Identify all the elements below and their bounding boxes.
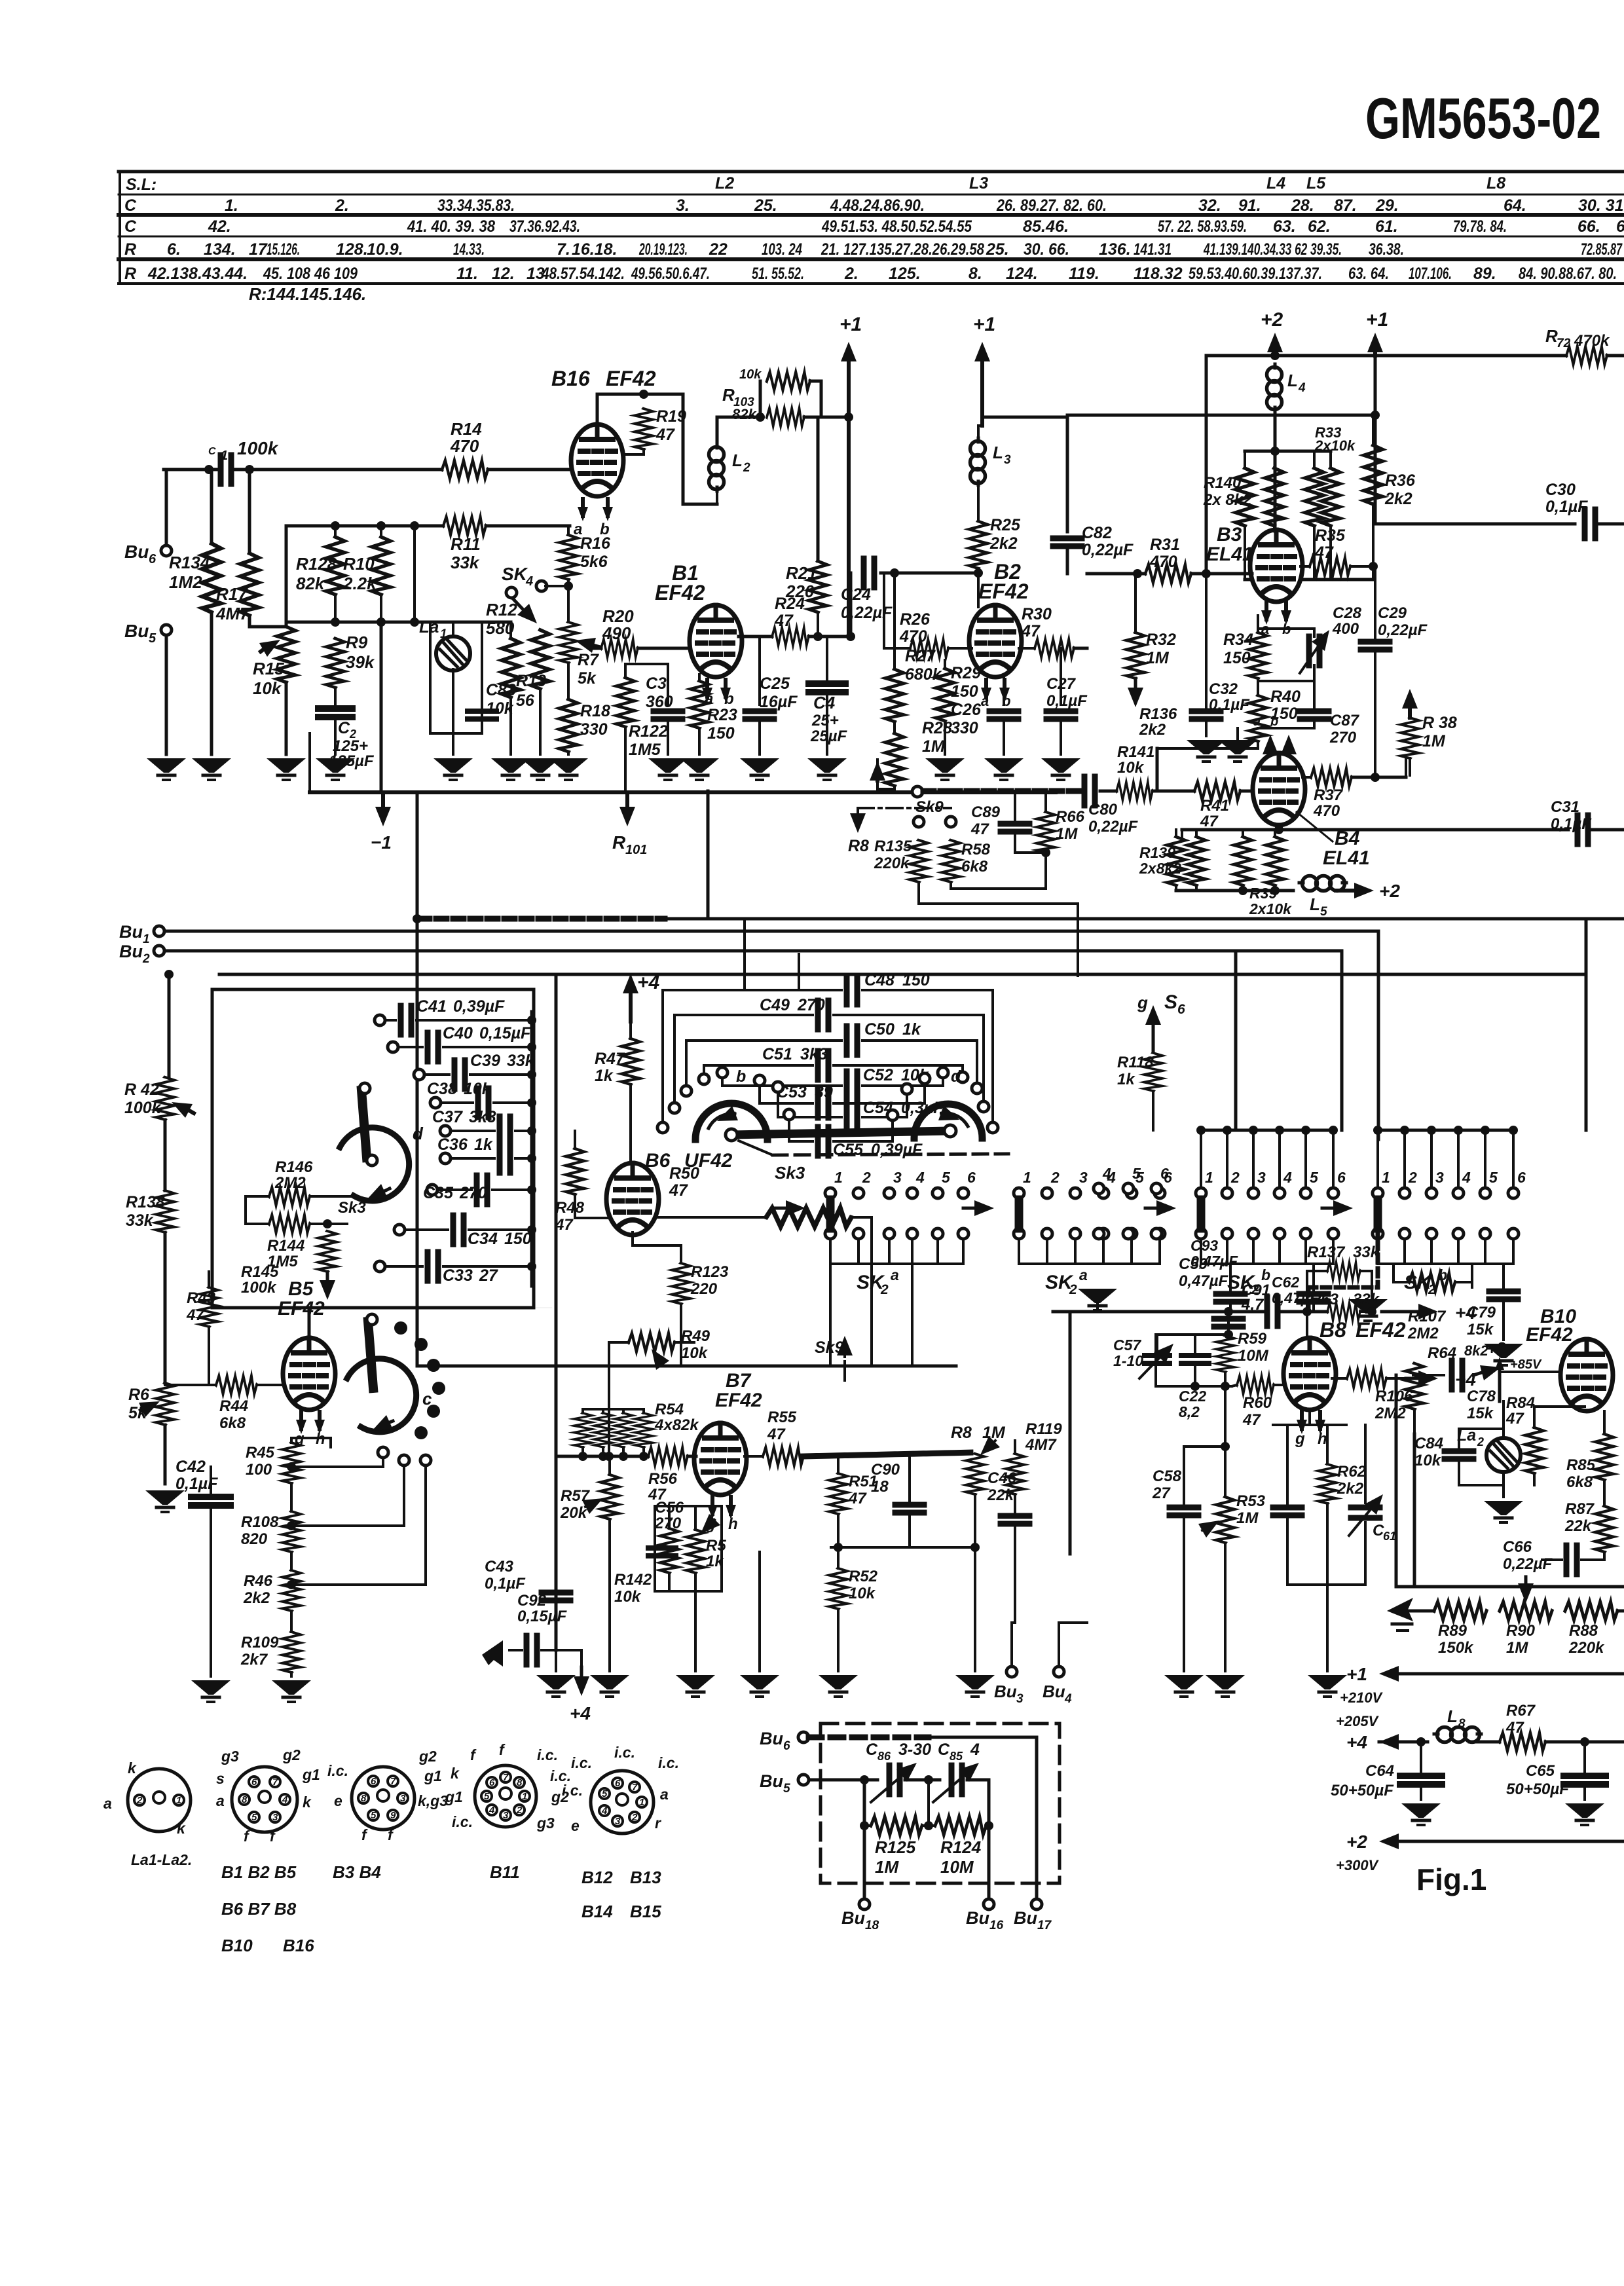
resistor R16 [559, 535, 578, 580]
wire R43 bottom [208, 1327, 210, 1383]
wire R27-R28 [893, 722, 896, 733]
svg-text:10k: 10k [253, 678, 282, 698]
svg-text:B11: B11 [490, 1862, 520, 1882]
wire C62 stem [1312, 1264, 1315, 1291]
capacitor C26 [989, 709, 1018, 714]
svg-text:86: 86 [877, 1750, 891, 1763]
svg-text:2k2: 2k2 [1139, 721, 1166, 739]
svg-text:17: 17 [1037, 1919, 1052, 1932]
wire R27 top [893, 573, 896, 669]
svg-text:1M2: 1M2 [169, 572, 202, 592]
svg-text:47: 47 [848, 1490, 867, 1507]
svg-text:k: k [177, 1820, 186, 1837]
wire R134 down [210, 612, 213, 754]
svg-text:2: 2 [880, 1282, 889, 1297]
svg-text:C: C [938, 1741, 950, 1759]
svg-text:85: 85 [950, 1750, 963, 1763]
resistor R118 [1144, 1053, 1162, 1091]
svg-text:1: 1 [143, 932, 150, 946]
svg-text:C66: C66 [1503, 1538, 1532, 1556]
svg-text:Fig.1: Fig.1 [1416, 1862, 1486, 1896]
wire C4 stem [826, 636, 828, 681]
wire B6 cathode [633, 1232, 681, 1263]
svg-text:R141: R141 [1117, 743, 1154, 761]
svg-text:2.: 2. [844, 265, 858, 283]
tube B8 [1283, 1338, 1336, 1410]
svg-text:R7: R7 [578, 651, 599, 669]
svg-text:5: 5 [371, 1810, 377, 1821]
svg-text:10.9.: 10.9. [367, 240, 403, 259]
ground C32 [1187, 740, 1226, 762]
resistor R84 [1525, 1428, 1543, 1473]
wire R24 left [740, 635, 772, 638]
svg-text:57. 22. 58.93.59.: 57. 22. 58.93.59. [1158, 217, 1247, 236]
svg-text:R21: R21 [786, 563, 817, 583]
svg-text:R48: R48 [555, 1199, 585, 1217]
ground C4 [807, 758, 847, 780]
wire v637 lower [416, 919, 419, 1366]
resistor R135 [910, 840, 928, 882]
node c [410, 521, 419, 530]
svg-text:R18: R18 [580, 702, 610, 720]
svg-text:R138: R138 [126, 1193, 165, 1211]
arrow +2 right [1336, 889, 1354, 893]
svg-text:2k7: 2k7 [240, 1651, 268, 1668]
svg-text:0,22µF: 0,22µF [1088, 818, 1139, 836]
ground R15 [267, 758, 306, 780]
ground R18 [549, 758, 588, 780]
node tap2 [287, 1521, 296, 1530]
svg-text:4: 4 [1298, 381, 1306, 395]
svg-text:+4: +4 [1455, 1302, 1476, 1323]
svg-text:2M2: 2M2 [1375, 1405, 1406, 1422]
resistor R141 [1116, 782, 1153, 800]
svg-text:C93: C93 [1190, 1237, 1218, 1254]
svg-text:1M: 1M [1422, 732, 1446, 750]
svg-text:R124: R124 [940, 1837, 982, 1857]
svg-text:103. 24: 103. 24 [762, 240, 802, 259]
svg-text:1.: 1. [225, 196, 238, 215]
svg-text:C89: C89 [971, 803, 1001, 821]
svg-text:1: 1 [1205, 1169, 1213, 1186]
svg-text:270: 270 [654, 1515, 682, 1532]
svg-text:2x8k2: 2x8k2 [1139, 860, 1181, 877]
resistor R139a [1167, 837, 1185, 885]
resistor R106 [1405, 1363, 1424, 1409]
svg-text:100k: 100k [241, 1279, 277, 1297]
wire B10 enclosure bottom [1396, 1585, 1624, 1589]
wire tap2 [291, 1467, 404, 1526]
svg-text:50+50µF: 50+50µF [1331, 1782, 1394, 1799]
arrow +1 rail [1399, 1672, 1624, 1676]
capacitor C62 [1299, 1291, 1328, 1297]
svg-text:9: 9 [390, 1810, 396, 1821]
wire C32 stem [1205, 576, 1208, 711]
svg-text:47: 47 [1505, 1410, 1524, 1428]
svg-text:72: 72 [1557, 337, 1571, 350]
svg-text:k,g3: k,g3 [418, 1792, 448, 1809]
svg-text:C38: C38 [427, 1080, 457, 1098]
wire Bu5 down [165, 635, 168, 754]
wire C89 stem [1014, 791, 1016, 824]
svg-text:+4: +4 [1455, 1369, 1476, 1390]
svg-text:220k: 220k [1568, 1639, 1605, 1657]
svg-text:6: 6 [1337, 1169, 1346, 1186]
wire R103 left [759, 381, 762, 417]
wire res bank bottom [1245, 578, 1373, 581]
ground arrow R89 [1387, 1598, 1413, 1621]
resistor R41 [1194, 782, 1240, 800]
svg-text:R25: R25 [990, 516, 1021, 534]
resistor R39a [1234, 837, 1252, 885]
wire Bu6 up [165, 470, 168, 545]
svg-text:C: C [124, 217, 137, 236]
wire C2 down [334, 720, 337, 754]
svg-text:2: 2 [516, 1805, 523, 1816]
node B1 anode [813, 632, 822, 641]
wire row2 right [486, 525, 570, 528]
wire box top [655, 1505, 722, 1507]
terminal Bu1 [154, 926, 164, 936]
switch contact dot [432, 1382, 445, 1395]
svg-text:C58: C58 [1153, 1467, 1182, 1485]
svg-text:R106: R106 [1375, 1388, 1413, 1405]
svg-text:128.: 128. [336, 240, 368, 259]
heater b B4 [1287, 753, 1291, 754]
svg-text:33k: 33k [451, 553, 480, 572]
ground R134 [192, 758, 231, 780]
svg-text:R90: R90 [1506, 1622, 1536, 1640]
resistor R128 [326, 537, 344, 595]
wire Bu2 drop [1340, 951, 1344, 1130]
resistor R52 [829, 1568, 847, 1609]
resistor R46 [282, 1570, 301, 1611]
wire R42-R138 [164, 1120, 167, 1190]
resistor R103a [767, 372, 810, 390]
svg-text:3.: 3. [676, 196, 690, 215]
svg-text:10k: 10k [464, 1080, 492, 1098]
svg-text:k: k [451, 1765, 460, 1782]
tube B1 [690, 605, 742, 677]
socket B11 [475, 1765, 536, 1827]
svg-text:16µF: 16µF [760, 693, 798, 711]
wire C79 stem [1471, 1264, 1473, 1287]
resistor R108 [282, 1511, 301, 1552]
resistor R109 [282, 1632, 301, 1672]
wire C29 down [1374, 650, 1376, 775]
svg-text:1: 1 [1023, 1169, 1031, 1186]
svg-text:Bu: Bu [966, 1908, 989, 1928]
resistor R17 [240, 553, 259, 616]
wire R17 to R15 [249, 616, 286, 627]
svg-text:k: k [303, 1794, 312, 1811]
svg-text:3k3: 3k3 [800, 1045, 828, 1063]
ground R62 [1308, 1675, 1347, 1697]
heavy dashed bus Sk9 [923, 788, 950, 794]
svg-text:79.78. 84.: 79.78. 84. [1453, 217, 1507, 236]
svg-text:15k: 15k [1467, 1321, 1494, 1338]
svg-text:g: g [1137, 993, 1148, 1012]
resistor R60 [1237, 1376, 1274, 1394]
svg-text:C56: C56 [655, 1499, 684, 1517]
capacitor C78 [1413, 1374, 1444, 1376]
svg-text:C48: C48 [864, 971, 895, 989]
table row R2 [124, 265, 1617, 283]
S6 contact b2 [1123, 1228, 1134, 1239]
wire R50 right down [851, 1217, 872, 1366]
svg-text:s: s [216, 1770, 225, 1787]
S6 contact [1094, 1183, 1104, 1194]
svg-text:25.: 25. [986, 240, 1009, 259]
supply +1 arrow c [1373, 352, 1377, 356]
svg-text:62.: 62. [1308, 217, 1331, 236]
svg-text:48.57.54.142.: 48.57.54.142. [541, 265, 625, 283]
resistor R142 [660, 1528, 678, 1573]
node +2 [1270, 351, 1280, 360]
svg-text:470k: 470k [1574, 332, 1610, 350]
svg-text:14.33.: 14.33. [453, 240, 485, 259]
box bottom dup [212, 1307, 552, 1308]
resistor R89 [1434, 1602, 1486, 1620]
wire R103b right [804, 416, 849, 419]
svg-text:49.51.53. 48.50.52.54.55: 49.51.53. 48.50.52.54.55 [821, 217, 972, 236]
resistor R40 [1249, 695, 1267, 741]
resistor R107 [1409, 1273, 1455, 1291]
svg-text:R:144.145.146.: R:144.145.146. [249, 284, 366, 304]
svg-text:87.: 87. [1334, 196, 1357, 215]
svg-text:R9: R9 [346, 633, 368, 652]
wire down [1224, 1386, 1227, 1447]
wire R25-B2 [977, 568, 980, 607]
svg-text:6: 6 [371, 1776, 377, 1787]
node tap3 [287, 1580, 296, 1589]
resistor R59 [1216, 1336, 1234, 1372]
tube B7 [694, 1423, 747, 1495]
wire R26 left [884, 647, 910, 650]
capacitor C85 variable [951, 1765, 962, 1794]
resistor R18 [559, 699, 578, 752]
svg-text:R15: R15 [253, 659, 284, 678]
wire C78 to B10 [1501, 1371, 1560, 1373]
svg-text:+210V: +210V [1340, 1689, 1384, 1706]
wire L2 bottom [716, 491, 718, 504]
wire R20 to B1 grid [589, 647, 601, 650]
resistor R39b [1266, 837, 1284, 885]
svg-text:C3: C3 [646, 674, 667, 693]
capacitor C27 [1046, 709, 1075, 714]
node R144 [323, 1219, 332, 1228]
svg-text:6: 6 [1517, 1169, 1526, 1186]
heater a B4 [1269, 753, 1272, 754]
capacitor C34 [453, 1215, 464, 1244]
svg-text:C82: C82 [1082, 524, 1112, 542]
terminal Bu6b [798, 1732, 809, 1742]
svg-text:42.138.43.44.: 42.138.43.44. [147, 265, 248, 283]
arrow R145 [326, 1272, 329, 1280]
svg-text:i.c.: i.c. [614, 1744, 635, 1761]
svg-text:R85: R85 [1566, 1456, 1596, 1474]
svg-text:B8: B8 [1319, 1318, 1346, 1342]
svg-text:4: 4 [915, 1169, 925, 1186]
wire R47-B6 [629, 1084, 632, 1166]
svg-text:R8: R8 [848, 837, 869, 855]
svg-text:Sk3: Sk3 [775, 1163, 805, 1183]
terminal Bu4 [1054, 1667, 1064, 1677]
node bank [1270, 575, 1280, 584]
capacitor C56 [648, 1545, 676, 1551]
svg-text:C84: C84 [1414, 1435, 1443, 1452]
wire R137 left [1307, 1271, 1327, 1312]
resistor R29 [936, 669, 954, 721]
resistor R23 [690, 681, 709, 728]
ground R23 [680, 758, 719, 780]
svg-text:150: 150 [1223, 649, 1251, 667]
resistor R101 arrow [625, 792, 629, 807]
wire R72 right [1607, 354, 1624, 358]
svg-text:82k: 82k [296, 574, 325, 593]
svg-text:C30: C30 [1545, 481, 1576, 499]
capacitor C43 [542, 1590, 570, 1596]
node y634-+1 [1371, 411, 1380, 420]
svg-text:1-10: 1-10 [1113, 1352, 1143, 1369]
svg-text:Bu: Bu [1014, 1908, 1037, 1928]
capacitor C39 [454, 1060, 465, 1089]
svg-text:g1: g1 [445, 1788, 463, 1805]
switch contact dot [427, 1359, 440, 1372]
svg-text:6: 6 [251, 1777, 257, 1788]
svg-text:+1: +1 [1366, 309, 1388, 331]
svg-text:b: b [600, 521, 610, 538]
wire Bu5 in [809, 1779, 877, 1782]
capacitor C87 [1300, 709, 1329, 714]
node C85 left [924, 1775, 933, 1784]
cap ladder bus [530, 1012, 534, 1286]
wire to B16 grid [488, 468, 571, 471]
svg-text:72.85.87: 72.85.87 [1581, 240, 1623, 259]
svg-text:C33: C33 [443, 1266, 473, 1285]
heater g B8 [1297, 1412, 1307, 1434]
svg-text:61: 61 [1383, 1530, 1396, 1543]
wire R31-B3 [1191, 572, 1252, 576]
node [1238, 886, 1247, 895]
wire R16 top [567, 526, 570, 535]
wire y2086 [556, 1365, 956, 1368]
svg-text:1k: 1k [595, 1067, 614, 1085]
svg-text:470: 470 [1313, 802, 1340, 820]
wire B8 cathode [1308, 1409, 1311, 1425]
wire C28 top [1258, 629, 1314, 636]
svg-text:R46: R46 [244, 1572, 273, 1590]
capacitor C50 [847, 1026, 857, 1055]
wire C57 left [1154, 1335, 1157, 1386]
svg-text:220: 220 [690, 1280, 718, 1298]
svg-text:C: C [338, 719, 350, 737]
svg-text:R57: R57 [561, 1487, 591, 1505]
svg-text:C31: C31 [1551, 798, 1579, 816]
heavy dashed Bu6 wire [809, 1735, 929, 1741]
svg-text:C32: C32 [1209, 680, 1238, 698]
wire C3 down [667, 719, 669, 754]
svg-text:R84: R84 [1506, 1394, 1535, 1412]
svg-text:20.19.123.: 20.19.123. [638, 240, 688, 259]
svg-text:i.c.: i.c. [658, 1754, 679, 1771]
capacitor C36 [500, 1144, 510, 1173]
svg-text:C41: C41 [416, 997, 447, 1016]
svg-text:C62: C62 [1272, 1274, 1299, 1291]
svg-text:R53: R53 [1236, 1492, 1266, 1510]
svg-text:470: 470 [899, 627, 927, 646]
capacitor C37r stem [1060, 648, 1062, 705]
svg-text:0,22µF: 0,22µF [1503, 1555, 1553, 1573]
ground B3 cathode [1218, 740, 1257, 762]
heater h B8 [1315, 1412, 1325, 1434]
wire R6 down [164, 1425, 167, 1484]
capacitor C82 [1053, 536, 1082, 542]
svg-text:1M: 1M [982, 1424, 1006, 1442]
wire C24 right [881, 572, 978, 575]
svg-text:EL41: EL41 [1206, 544, 1253, 565]
S6 contact b3 [1151, 1228, 1162, 1239]
heater g B5 [296, 1412, 306, 1434]
heater pin b B16 [602, 499, 613, 521]
svg-text:C29: C29 [1378, 604, 1407, 622]
svg-text:R: R [124, 240, 136, 259]
arrow +4 b8 [1382, 1310, 1418, 1314]
wire R41-B4 [1240, 790, 1255, 793]
wire R39 bottom [1176, 889, 1293, 893]
wire R8 down [974, 1494, 976, 1671]
potentiometer R90 [1500, 1602, 1552, 1620]
wire B5 cathode [291, 1438, 331, 1447]
wire R123 down [680, 1304, 682, 1366]
parts table frame [119, 172, 1624, 284]
wire R146-R144 left [244, 1196, 247, 1224]
svg-text:3: 3 [1257, 1169, 1266, 1186]
tube B5 [283, 1338, 335, 1410]
heater h B5 [314, 1412, 325, 1434]
tube B16 [571, 424, 623, 496]
wire C42 top [210, 1467, 212, 1497]
svg-text:5: 5 [1132, 1165, 1141, 1182]
terminal Bu18 [859, 1899, 870, 1909]
wire to SK4 [545, 585, 568, 587]
svg-text:360: 360 [646, 693, 673, 711]
svg-text:220k: 220k [874, 855, 910, 872]
node v1842-x [1202, 569, 1211, 578]
ground C64 [1401, 1803, 1441, 1825]
wire R26-B2 [948, 647, 972, 650]
lamp La1 [436, 636, 470, 671]
svg-text:R56: R56 [648, 1470, 678, 1488]
arrow +4 down [580, 1667, 583, 1676]
svg-text:56: 56 [516, 691, 535, 710]
capacitor C37 [500, 1116, 510, 1145]
svg-text:R29: R29 [951, 664, 981, 682]
svg-text:33k: 33k [1353, 1291, 1380, 1308]
svg-text:R128: R128 [296, 554, 337, 574]
svg-text:+4: +4 [637, 972, 660, 993]
inductor L4 [1267, 364, 1282, 411]
wire to R38 [1405, 760, 1407, 777]
svg-text:−1: −1 [371, 832, 392, 853]
svg-text:R40: R40 [1270, 688, 1301, 706]
dashed link Sk3 [739, 1141, 773, 1155]
ground C25 [740, 758, 779, 780]
wire row2 left [286, 525, 443, 528]
svg-text:R37: R37 [1314, 786, 1344, 804]
svg-text:0,47µF: 0,47µF [1190, 1253, 1238, 1270]
node b [377, 521, 386, 530]
